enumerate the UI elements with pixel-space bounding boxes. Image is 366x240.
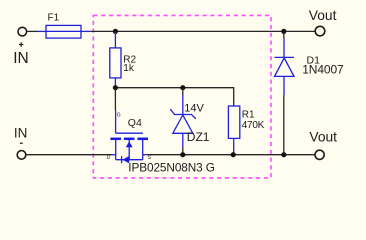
svg-text:14V: 14V <box>184 103 204 115</box>
diode D1 <box>275 31 295 154</box>
svg-text:D: D <box>107 155 111 161</box>
channel bar drain <box>110 138 121 141</box>
pin D stub <box>112 154 116 156</box>
junction top rail / D1 <box>281 29 286 34</box>
wire IN+ to F1 <box>27 30 38 32</box>
cathode Z-bar <box>170 109 196 119</box>
svg-text:IPB025N08N3 G: IPB025N08N3 G <box>128 160 215 174</box>
body-source line with body diode <box>116 159 143 161</box>
wire top rail F1 to Vout+ <box>90 30 315 32</box>
pin G lead <box>115 110 117 133</box>
svg-text:DZ1: DZ1 <box>187 130 210 144</box>
svg-text:F1: F1 <box>48 13 60 24</box>
source stem <box>142 140 144 160</box>
anode triangle <box>275 58 295 77</box>
resistor R1 <box>228 106 239 155</box>
svg-text:IN: IN <box>14 126 28 141</box>
junction gate rail / R2 <box>113 85 118 90</box>
svg-text:Vout: Vout <box>309 129 337 144</box>
wire gate rail <box>115 88 233 106</box>
svg-text:Q4: Q4 <box>128 117 142 129</box>
junction top rail / R2 <box>113 29 118 34</box>
zener diode DZ1 <box>170 88 196 155</box>
svg-text:Vout: Vout <box>309 8 337 23</box>
drain stem <box>115 140 117 160</box>
dashed protection-module boundary box <box>93 15 271 178</box>
junction bottom rail / DZ1 <box>180 152 185 157</box>
terminal IN+ <box>18 27 27 47</box>
junction bottom rail / D1 <box>281 152 286 157</box>
pin S stub <box>143 154 147 156</box>
channel bar body <box>124 138 135 141</box>
svg-text:470K: 470K <box>242 120 265 131</box>
anode triangle <box>173 115 193 133</box>
terminal IN- <box>17 143 26 159</box>
body stem with arrow <box>128 140 130 160</box>
fuse F1 <box>38 25 90 38</box>
svg-text:1k: 1k <box>123 63 135 74</box>
resistor R2 <box>110 31 121 87</box>
svg-text:R1: R1 <box>242 109 255 120</box>
terminal Vout- <box>315 150 324 159</box>
wire Q4 source to Vout- <box>146 154 315 156</box>
svg-text:G: G <box>117 113 121 119</box>
gate plate <box>116 132 143 134</box>
cathode bar <box>275 56 295 58</box>
svg-text:1N4007: 1N4007 <box>302 62 344 76</box>
svg-text:IN: IN <box>13 50 29 67</box>
channel bar source <box>137 138 148 141</box>
wire IN- to Q4 drain <box>26 154 112 156</box>
junction gate rail / DZ1 <box>180 85 185 90</box>
junction bottom rail / R1 <box>231 152 236 157</box>
terminal Vout+ <box>315 26 325 36</box>
transistor Q4 (N-MOSFET IPB025N08N3 G) <box>107 110 152 163</box>
wire gate lead down to Q4 <box>114 88 116 111</box>
